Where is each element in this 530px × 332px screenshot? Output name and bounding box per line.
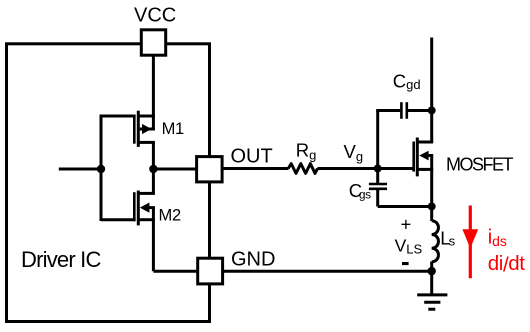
- svg-text:Cgd: Cgd: [393, 71, 421, 93]
- svg-text:+: +: [401, 214, 412, 235]
- wire: Vg down to Cgs: [376, 169, 379, 184]
- MOSFET bulk arrow: [419, 151, 428, 161]
- svg-text:Driver IC: Driver IC: [21, 247, 101, 272]
- node: GND junction dot: [428, 267, 436, 275]
- svg-text:M2: M2: [159, 206, 181, 224]
- Driver IC box: [7, 44, 210, 322]
- node Vg junction dot: [374, 165, 382, 173]
- M1 drain stub: [139, 141, 155, 144]
- M1 bulk stub: [140, 128, 155, 131]
- wire: M2 source down to GND rail: [152, 220, 155, 272]
- wire: Cgs to source line: [378, 205, 432, 208]
- wire: GND rail from driver to source node: [223, 270, 432, 273]
- transistor M1: [134, 111, 155, 147]
- M2 drain stub: [139, 192, 155, 195]
- svg-text:VCC: VCC: [134, 5, 176, 27]
- pin VCC (square): [141, 30, 165, 55]
- MOSFET drain stub: [419, 141, 434, 144]
- wire: drain vertical: [430, 38, 433, 143]
- node: output junction dot: [149, 165, 157, 173]
- M2 source stub: [139, 218, 155, 221]
- M2 channel bar: [137, 191, 140, 226]
- node: source/Cgs junction dot: [428, 202, 436, 210]
- MOSFET source stub: [419, 168, 434, 171]
- MOSFET gate bar: [412, 142, 415, 172]
- M1 channel bar: [137, 111, 140, 147]
- M1 source stub: [139, 115, 155, 118]
- svg-text:M1: M1: [162, 120, 184, 138]
- wire: resistor to MOSFET gate: [318, 167, 415, 170]
- wire: Cgd branch left: [376, 109, 400, 112]
- svg-text:OUT: OUT: [231, 145, 273, 167]
- MOSFET channel bar: [416, 138, 419, 177]
- transistor MOSFET: [414, 138, 434, 177]
- ground: [417, 271, 447, 309]
- M1 bulk arrow: [142, 124, 152, 134]
- wire: output node to OUT pin: [153, 168, 197, 171]
- svg-text:VLS: VLS: [395, 235, 423, 256]
- inductor Ls (coil): [432, 221, 439, 262]
- M1 gate bar: [133, 115, 136, 144]
- M2 gate bar: [133, 192, 136, 221]
- svg-text:di/dt: di/dt: [488, 252, 525, 277]
- wire: coil bottom to GND node: [430, 262, 433, 272]
- capacitor Cgs: [369, 184, 387, 189]
- wire: VCC drop to M1 source/bulk: [152, 55, 155, 131]
- wire: Vg up to Cgd branch: [376, 111, 379, 169]
- wire: M1 drain down to output node: [152, 142, 155, 170]
- wire: Cgd branch right: [408, 109, 432, 112]
- label -: [402, 262, 409, 265]
- capacitor Cgd: [401, 102, 406, 119]
- node: Cgd/drain junction dot: [428, 106, 436, 114]
- svg-text:Rg: Rg: [296, 140, 317, 163]
- transistor M2: [134, 191, 155, 226]
- wire: M1 gate: [101, 115, 136, 118]
- svg-text:Vg: Vg: [344, 141, 364, 164]
- pin OUT (square): [197, 157, 223, 182]
- M2 bulk arrow: [140, 203, 150, 213]
- svg-text:ids: ids: [488, 227, 507, 250]
- svg-text:Cgs: Cgs: [349, 180, 371, 202]
- resistor Rg: [288, 164, 317, 174]
- svg-text:GND: GND: [231, 249, 275, 271]
- svg-text:MOSFET: MOSFET: [446, 155, 514, 175]
- wire: OUT pin to resistor Rg: [222, 167, 288, 170]
- wire: output node to M2 drain: [152, 167, 155, 193]
- wire: Cgs down: [376, 190, 379, 207]
- wire: GND rail inside driver: [153, 270, 198, 273]
- M2 bulk stub: [145, 206, 155, 209]
- node: input junction dot: [97, 165, 105, 173]
- wire: ids current arrow (red): [469, 206, 472, 279]
- pin GND (square): [198, 258, 223, 284]
- svg-text:Ls: Ls: [440, 228, 455, 249]
- wire: M2 gate: [101, 218, 136, 221]
- wire: MOSFET source down to coil top: [430, 156, 433, 222]
- wire: gate tie vertical: [100, 115, 103, 222]
- wire: M2 bulk down to source: [152, 208, 155, 220]
- wire: input stub: [59, 168, 102, 171]
- MOSFET bulk stub: [425, 154, 434, 157]
